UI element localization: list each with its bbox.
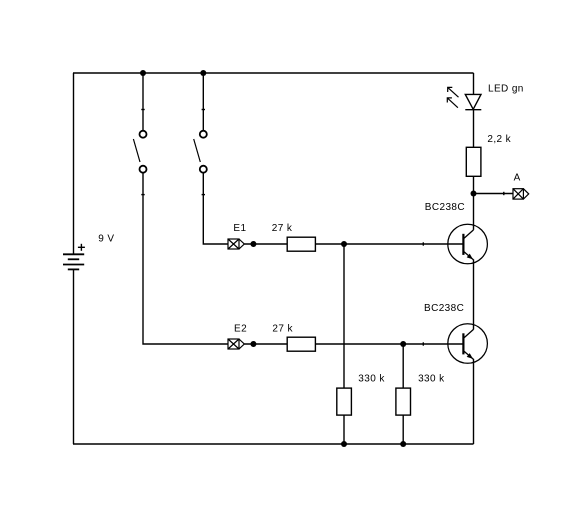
node: junction dot E1 — [250, 241, 256, 247]
wire: right vertical from top rail down to LED anode — [473, 73, 475, 94]
wire: from switch S2 down and right to terminal E1 — [203, 173, 228, 244]
svg-text:BC238C: BC238C — [424, 303, 464, 314]
wire: top rail from left corner to right corner — [73, 72, 474, 74]
wire: bottom rail — [73, 443, 474, 445]
wire: E2-row branch down to resistor 330k right — [402, 344, 404, 388]
resistor 330 k (right) — [396, 388, 411, 415]
wire: resistor 27k to base of Q1 — [315, 243, 463, 245]
wire: from top rail down to switch S1 — [142, 73, 144, 131]
LED emission arrow 1 — [448, 87, 459, 97]
svg-text:LED gn: LED gn — [488, 84, 524, 95]
svg-text:27 k: 27 k — [272, 223, 293, 234]
svg-text:330 k: 330 k — [418, 374, 445, 385]
wire: left rail upper (down to battery + plate) — [73, 73, 75, 254]
svg-text:330 k: 330 k — [358, 374, 385, 385]
node: junction dot E1 row to 330k branch — [341, 241, 347, 247]
pin tick S1 bottom — [141, 194, 144, 196]
wire: E1 terminal to resistor 27k — [244, 243, 287, 245]
svg-text:27 k: 27 k — [272, 323, 293, 334]
node: junction dot collector / A — [471, 191, 477, 197]
wire: from switch S1 down and right to terminal E2 — [143, 173, 228, 344]
pin tick Q1 base — [422, 242, 424, 245]
terminal A — [513, 189, 529, 199]
transistor Q1 BC238C — [448, 224, 488, 264]
node: junction dot E2 row to 330k branch — [400, 341, 406, 347]
node: junction dot E2 — [250, 341, 256, 347]
wire: E1-row branch down to resistor 330k left — [343, 244, 345, 388]
wire: E2 terminal to resistor 27k — [244, 343, 287, 345]
wire: Q2 emitter down to bottom rail — [473, 359, 475, 444]
svg-text:A: A — [514, 173, 521, 184]
svg-text:2,2 k: 2,2 k — [487, 134, 511, 145]
wire: resistor 2,2k down to Q1 collector — [473, 176, 475, 230]
LED D1 green — [465, 94, 481, 109]
resistor 27 k (E2 row) — [287, 337, 315, 351]
pin tick S1 top — [141, 109, 144, 111]
resistor 27 k (E1 row) — [287, 237, 315, 251]
pin tick terminal A — [503, 192, 505, 195]
wire: left rail lower (battery - down to bottom rail) — [73, 269, 75, 444]
battery plus sign — [78, 244, 85, 251]
resistor 330 k (left) — [337, 388, 352, 415]
pin tick S2 bottom — [202, 194, 205, 196]
battery 9 V — [63, 254, 84, 269]
node: junction dot bottom rail left — [341, 441, 347, 447]
LED emission arrow 2 — [447, 98, 458, 108]
wire: Q1 emitter to Q2 collector — [473, 259, 475, 329]
wire: junction to terminal A — [474, 193, 514, 195]
svg-text:BC238C: BC238C — [425, 202, 465, 213]
resistor 2,2 k — [466, 147, 481, 176]
transistor Q2 BC238C — [448, 324, 488, 364]
svg-text:9 V: 9 V — [98, 233, 114, 244]
terminal E1 — [228, 239, 244, 249]
pin tick Q2 base — [422, 342, 424, 345]
node: junction dot top rail / switch S1 — [140, 70, 146, 76]
wire: resistor 330k left to bottom rail — [343, 415, 345, 444]
node: junction dot bottom rail right — [400, 441, 406, 447]
terminal E2 — [228, 339, 244, 349]
wire: resistor 27k to base of Q2 — [315, 343, 463, 345]
wire: LED cathode to resistor 2,2k — [473, 110, 475, 148]
switch S1 — [133, 131, 146, 173]
svg-text:E2: E2 — [234, 323, 247, 334]
pin tick S2 top — [202, 109, 205, 111]
switch S2 — [194, 131, 207, 173]
wire: from top rail down to switch S2 — [202, 73, 204, 131]
svg-text:E1: E1 — [233, 223, 246, 234]
wire: resistor 330k right to bottom rail — [402, 415, 404, 444]
node: junction dot top rail / switch S2 — [200, 70, 206, 76]
